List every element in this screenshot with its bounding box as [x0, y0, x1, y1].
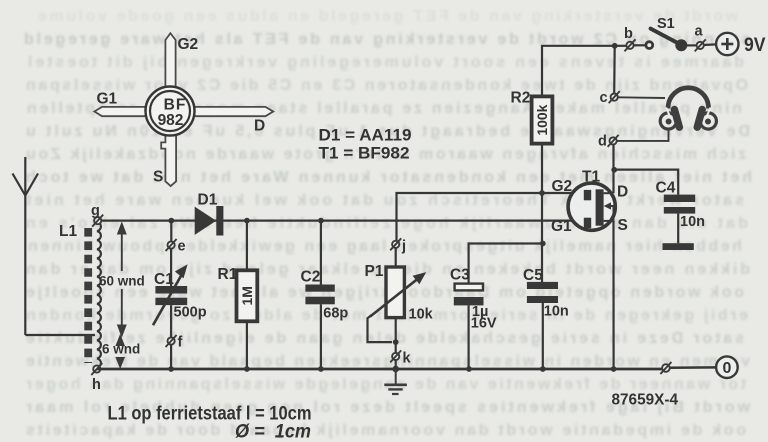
60 wnd dimension arrow — [118, 224, 125, 335]
potentiometer P1 — [368, 267, 427, 342]
node: dot P1 wiper to k — [393, 339, 399, 345]
capacitor C2 — [305, 285, 334, 305]
wire j to P1 — [395, 248, 397, 267]
svg-text:g: g — [91, 203, 100, 219]
svg-text:16V: 16V — [471, 316, 497, 332]
node: dot C2 top — [318, 218, 324, 224]
wire R2-C5 vertical — [541, 145, 543, 282]
svg-text:dat die dan een bezwaarlijk ho: dat die dan een bezwaarlijk hoge zelfind… — [26, 215, 748, 232]
wire C3 bottom to bus — [468, 305, 470, 369]
wire e to C1 — [170, 249, 172, 286]
node: dot g/e junction — [168, 218, 174, 224]
headphones — [660, 88, 716, 129]
svg-text:j: j — [401, 239, 406, 255]
BF982 pinout: lead S with index tab — [161, 132, 176, 186]
wire node to b — [615, 45, 627, 47]
svg-text:1M: 1M — [239, 286, 255, 305]
wire b to switch pole — [634, 44, 645, 46]
svg-text:S: S — [153, 169, 163, 186]
svg-text:h: h — [92, 377, 101, 393]
switch S1 arm — [651, 29, 688, 52]
wire C4 bottom stub — [677, 214, 679, 244]
ground — [384, 369, 407, 394]
svg-text:daarmee is tevens een soort vo: daarmee is tevens een soort volumeregeli… — [28, 54, 744, 71]
wire R1 top lead — [246, 221, 248, 271]
variable capacitor C1 — [153, 264, 188, 325]
wire g to T1 G1 (main top wire) — [102, 220, 585, 222]
wire C5 bottom to bus — [542, 303, 544, 369]
resistor R1 — [237, 270, 258, 321]
wire G2 net: corner to T1 G2 — [397, 193, 585, 241]
terminal 0 — [716, 356, 738, 378]
wire a to battery — [704, 43, 716, 46]
svg-text:10n: 10n — [680, 214, 705, 230]
L1 ferrite rod (dashed) — [84, 228, 92, 363]
BF982 pinout: lead G2 — [165, 33, 175, 90]
wire junction to e — [170, 221, 172, 242]
wire c to headphones — [618, 96, 665, 99]
BF982 pinout: lead G1 — [94, 107, 148, 116]
wire C2 bottom lead — [320, 304, 322, 369]
svg-text:C1: C1 — [154, 271, 174, 288]
node: dot P1/ground bus — [392, 366, 399, 373]
terminal a — [695, 39, 706, 51]
battery + 9V — [716, 33, 738, 55]
svg-text:982: 982 — [158, 112, 184, 129]
node: dot C5 bus — [540, 366, 546, 372]
svg-text:100k: 100k — [534, 104, 550, 135]
svg-text:L1: L1 — [59, 223, 77, 240]
node: dot R1 top — [244, 218, 250, 224]
node: dot C2 bus — [318, 366, 324, 372]
terminal h — [91, 363, 102, 375]
svg-text:k: k — [403, 351, 412, 367]
svg-text:S: S — [618, 217, 628, 234]
wire T1 source to bus — [612, 221, 614, 369]
node: dot T1 S bus — [611, 366, 617, 372]
svg-text:6 wnd: 6 wnd — [102, 342, 140, 357]
svg-text:BF: BF — [164, 97, 187, 114]
svg-text:60 wnd: 60 wnd — [99, 274, 145, 289]
wire antenna tap to coil — [25, 334, 95, 336]
svg-text:a: a — [695, 24, 704, 40]
svg-text:T1 = BF982: T1 = BF982 — [319, 145, 410, 163]
BF982 pinout: can body (double circle) — [146, 87, 195, 136]
terminal c — [609, 91, 620, 103]
node: dot f bus — [168, 366, 174, 372]
svg-text:G1: G1 — [551, 218, 572, 235]
terminal e — [166, 239, 177, 251]
svg-text:S1: S1 — [657, 16, 675, 32]
capacitor C5 — [527, 282, 558, 303]
wire to C4 — [614, 170, 678, 195]
terminal g — [92, 215, 103, 227]
svg-text:P1: P1 — [365, 263, 384, 280]
terminal k — [390, 350, 401, 362]
wire f to bus — [170, 345, 172, 369]
wire C3 top to G2 node — [469, 244, 543, 284]
svg-text:D1 = AA119: D1 = AA119 — [319, 127, 412, 145]
node: dot b/c junction — [612, 43, 618, 49]
svg-text:hebben hier namelijk uitgespro: hebben hier namelijk uitgesproken laag e… — [28, 238, 742, 255]
svg-text:Ø = 1cm: Ø = 1cm — [235, 422, 311, 442]
switch S1 pole contact — [646, 42, 653, 49]
node: dot G2 / R2 — [539, 190, 545, 196]
svg-text:C5: C5 — [523, 267, 543, 284]
wire blob to a — [686, 44, 697, 46]
wire R1 bottom lead — [246, 321, 248, 369]
wire C2 top lead — [320, 221, 322, 285]
svg-text:0: 0 — [722, 360, 731, 377]
svg-text:9V: 9V — [744, 35, 766, 56]
antenna — [13, 157, 39, 335]
svg-text:C2: C2 — [301, 269, 321, 286]
svg-text:R1: R1 — [218, 266, 238, 283]
svg-text:G2: G2 — [552, 178, 573, 195]
svg-text:Opvallend zijn de twee kondens: Opvallend zijn de twee kondensatoren C3 … — [26, 77, 748, 94]
electrolytic capacitor C3 — [454, 284, 484, 306]
C4 end bar — [663, 243, 694, 250]
svg-text:c: c — [600, 90, 608, 106]
terminal f — [166, 335, 177, 347]
wire to 0 terminal — [670, 366, 716, 369]
diode D1 — [195, 206, 224, 236]
svg-text:ook de impedantie wordt dan vo: ook de impedantie wordt dan voornamelijk… — [26, 422, 746, 439]
bottom bus wire — [97, 368, 663, 371]
svg-text:500p: 500p — [174, 305, 207, 321]
svg-text:d: d — [598, 134, 607, 150]
wire d to headphones — [617, 130, 669, 141]
svg-text:D1: D1 — [198, 192, 218, 209]
node: dot C4 junction — [611, 167, 617, 173]
svg-text:f: f — [178, 335, 183, 351]
terminal j — [390, 238, 401, 250]
node: dot C3 / C5 — [540, 241, 546, 247]
terminal b — [625, 39, 636, 51]
svg-text:b: b — [624, 26, 633, 42]
svg-text:T1: T1 — [582, 169, 600, 186]
svg-text:10n: 10n — [544, 304, 569, 320]
capacitor C4 — [664, 195, 695, 214]
node: dot C3 bus — [466, 366, 472, 372]
6 wnd dimension arrow — [117, 337, 124, 367]
svg-text:D: D — [254, 118, 265, 135]
transistor T1 (BF982) — [568, 183, 615, 230]
svg-text:68p: 68p — [323, 306, 348, 322]
wire P1 bottom to k — [395, 317, 397, 353]
wire C1 to f — [170, 305, 172, 337]
svg-text:G1: G1 — [97, 91, 118, 108]
svg-text:10k: 10k — [409, 307, 434, 323]
svg-text:D: D — [617, 184, 628, 201]
svg-text:C4: C4 — [656, 180, 676, 197]
resistor R2 — [532, 96, 553, 143]
node: dot R1 bus — [244, 366, 250, 372]
svg-text:87659X-4: 87659X-4 — [612, 392, 679, 409]
terminal 0-side open circle — [660, 362, 671, 374]
wire R2 top to b-node — [542, 46, 615, 95]
svg-text:G2: G2 — [178, 36, 199, 53]
BF982 pinout: lead D — [192, 107, 273, 116]
wire d down to T1 drain — [612, 145, 614, 194]
svg-text:C3: C3 — [450, 267, 470, 284]
svg-text:e: e — [178, 239, 186, 255]
svg-text:sator werkt gelijk Theoretisch: sator werkt gelijk Theoretisch zou dat o… — [25, 192, 744, 209]
wire k to bus — [395, 360, 397, 369]
svg-text:R2: R2 — [511, 90, 531, 107]
coil L1 — [97, 222, 101, 368]
wire node to c — [613, 46, 616, 94]
terminal d — [608, 135, 619, 147]
